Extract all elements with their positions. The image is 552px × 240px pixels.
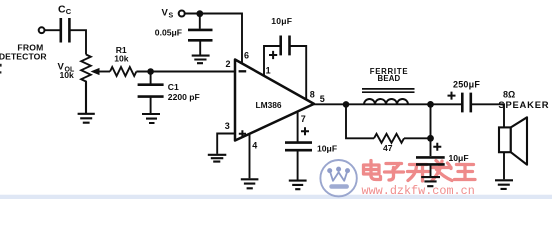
ground speaker	[503, 152, 505, 179]
svg-text:4: 4	[252, 141, 257, 151]
svg-text:47: 47	[383, 143, 393, 153]
svg-text:10k: 10k	[60, 70, 75, 80]
capacitor C3 10uF pin7	[285, 143, 312, 151]
input terminal	[39, 27, 45, 33]
ground pot	[78, 82, 95, 123]
svg-text:2200 pF: 2200 pF	[168, 92, 200, 102]
ground C3	[297, 151, 299, 180]
svg-text:5: 5	[320, 94, 325, 104]
svg-text:SPEAKER: SPEAKER	[498, 99, 549, 110]
svg-text:10μF: 10μF	[449, 153, 469, 163]
wire input to CC	[45, 29, 61, 31]
lower branch wires	[346, 104, 431, 156]
capacitor 0.05uF	[199, 14, 201, 29]
svg-text:S: S	[169, 12, 174, 19]
ground C4	[430, 165, 432, 177]
wire CC to pot	[69, 30, 86, 54]
wire VS rail	[185, 14, 242, 64]
minus sign pin2	[239, 70, 247, 72]
node junction C1	[147, 68, 154, 75]
svg-text:LM386: LM386	[256, 100, 282, 110]
svg-text:8: 8	[310, 90, 315, 100]
capacitor C1	[150, 72, 152, 85]
capacitor C4 10uF output	[416, 157, 445, 164]
potentiometer VOL 10k	[81, 55, 91, 110]
svg-text:V: V	[162, 8, 169, 19]
wire C5 to speaker	[471, 104, 504, 127]
svg-text:250μF: 250μF	[453, 79, 480, 89]
svg-text:DETECTOR: DETECTOR	[0, 51, 47, 61]
ferrite bead bars	[362, 89, 415, 92]
wire R1 to op-amp pin2	[136, 71, 235, 73]
svg-text:10k: 10k	[114, 54, 129, 64]
resistor 47	[374, 134, 404, 143]
pot wiper arrow	[91, 68, 100, 75]
svg-text:10μF: 10μF	[271, 16, 292, 26]
svg-text:7: 7	[301, 114, 306, 124]
svg-text:BEAD: BEAD	[378, 74, 401, 83]
speaker LS1	[499, 127, 511, 152]
svg-text:0.05μF: 0.05μF	[155, 28, 182, 38]
svg-text:2: 2	[226, 59, 231, 69]
edge artifact marks	[0, 64, 2, 67]
node junction right bottom	[427, 135, 434, 142]
resistor R1	[110, 67, 136, 76]
svg-text:C: C	[58, 4, 66, 16]
capacitor CC	[61, 18, 70, 43]
plus sign pin3	[239, 130, 246, 137]
svg-text:C1: C1	[168, 82, 179, 92]
svg-text:3: 3	[225, 121, 230, 131]
ferrite bead FB1 inductor	[364, 99, 408, 104]
svg-text:1: 1	[266, 65, 271, 75]
pin 7 wire	[297, 112, 299, 143]
node output junction left	[343, 101, 350, 108]
watermark text DianZiKaiFaWang	[364, 161, 476, 182]
op-amp U1 LM386	[235, 60, 314, 141]
node junction right top	[427, 101, 434, 108]
pin 3 wire and ground	[217, 134, 235, 154]
svg-text:10μF: 10μF	[317, 144, 337, 154]
watermark logo	[320, 160, 356, 196]
capacitor C5 250uF	[462, 93, 471, 113]
capacitor C2 10uF pins 1-8	[264, 46, 306, 99]
bottom band	[0, 195, 552, 199]
svg-text:6: 6	[244, 50, 249, 60]
svg-text:www.dzkfw.com.cn: www.dzkfw.com.cn	[362, 184, 475, 198]
svg-text:C: C	[66, 7, 72, 16]
ground 0.05uF	[192, 56, 210, 64]
ground C1	[142, 114, 160, 123]
pin 4 wire and ground	[249, 134, 251, 178]
node VS junction	[196, 10, 203, 17]
output wire pin 5	[313, 103, 462, 105]
